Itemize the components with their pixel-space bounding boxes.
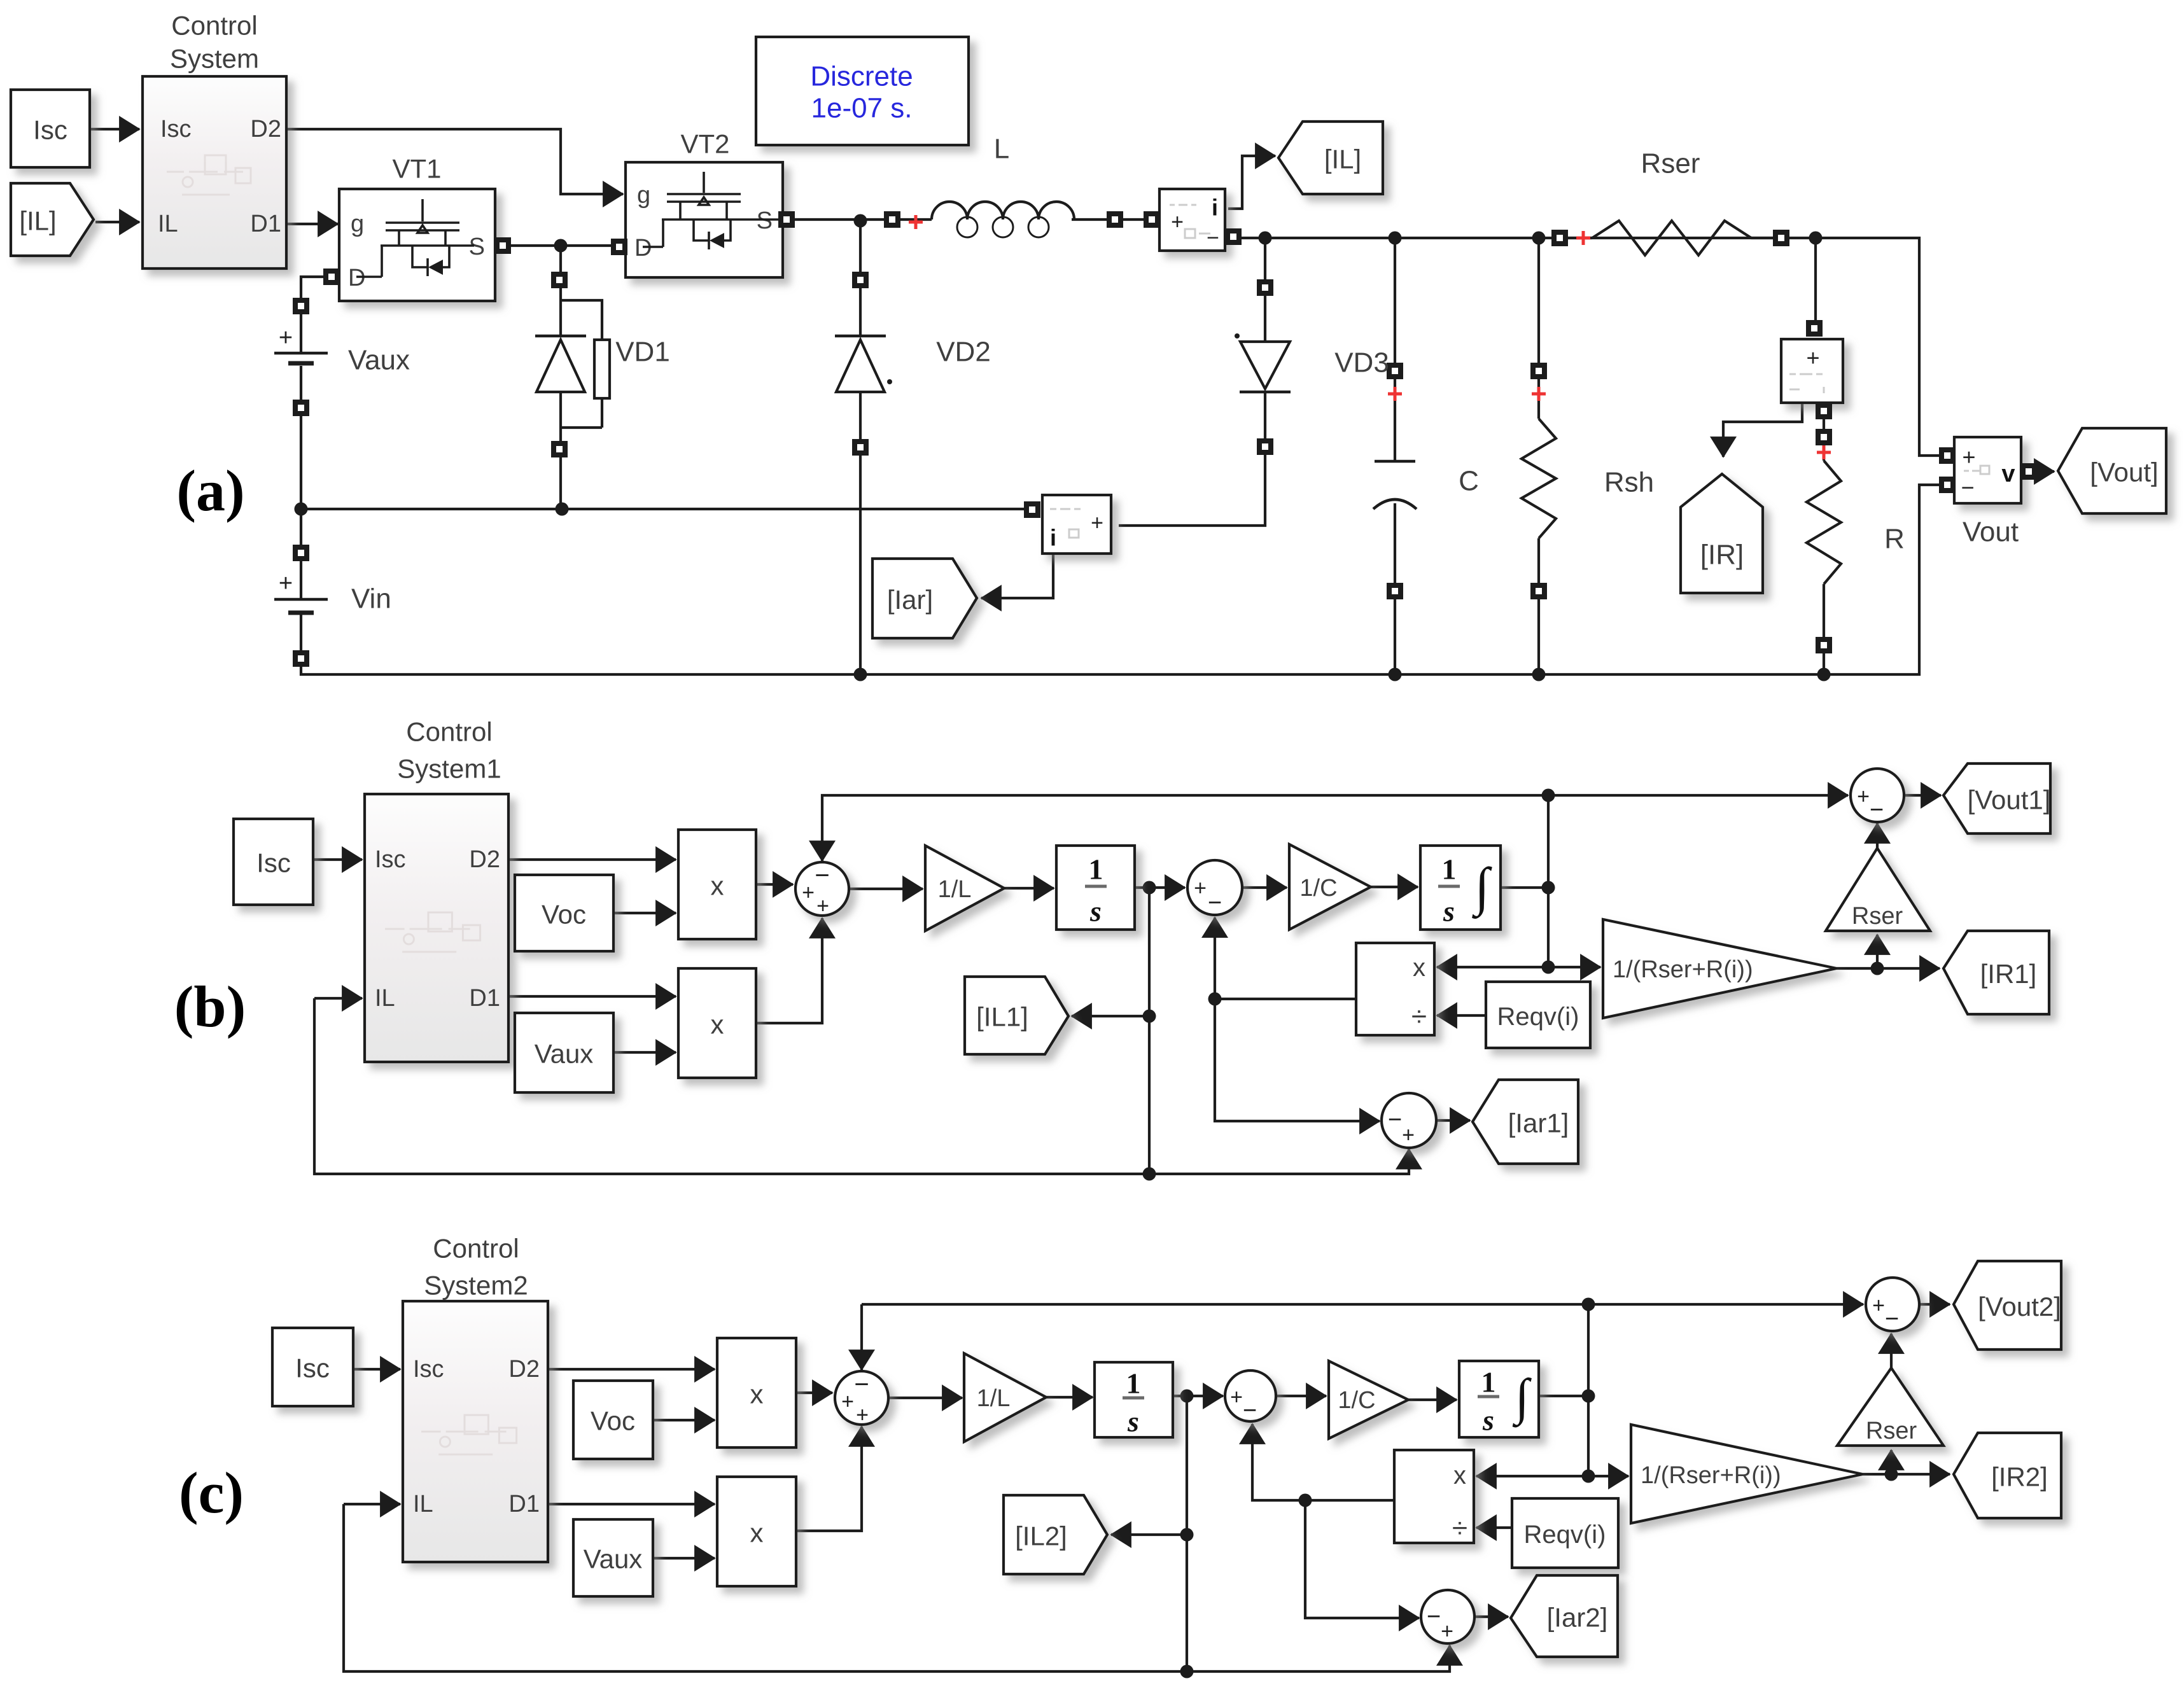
svg-text:÷: ÷ xyxy=(1452,1513,1467,1544)
svg-text:[Vout]: [Vout] xyxy=(2090,457,2158,487)
svg-text:+: + xyxy=(802,881,815,905)
svg-text:1/(Rser+R(i)): 1/(Rser+R(i)) xyxy=(1613,956,1753,983)
svg-text:Discrete: Discrete xyxy=(810,61,913,92)
svg-text:Rser: Rser xyxy=(1866,1418,1917,1444)
svg-text:−: − xyxy=(1388,1106,1402,1133)
svg-text:s: s xyxy=(1482,1404,1494,1437)
svg-text:Rser: Rser xyxy=(1641,148,1700,179)
svg-text:VD2: VD2 xyxy=(936,337,991,368)
svg-text:Voc: Voc xyxy=(542,900,586,930)
svg-text:x: x xyxy=(711,871,724,901)
svg-text:Vin: Vin xyxy=(351,583,391,615)
svg-text:+: + xyxy=(279,570,293,597)
svg-text:x: x xyxy=(1453,1461,1466,1489)
svg-text:(b): (b) xyxy=(174,974,246,1039)
svg-text:1: 1 xyxy=(1442,853,1457,886)
svg-text:D2: D2 xyxy=(250,116,281,143)
svg-text:Isc: Isc xyxy=(413,1356,444,1383)
svg-text:1: 1 xyxy=(1089,853,1103,886)
svg-text:1e-07 s.: 1e-07 s. xyxy=(811,93,913,124)
svg-text:x: x xyxy=(750,1518,764,1548)
svg-text:Isc: Isc xyxy=(33,115,67,145)
svg-text:IL: IL xyxy=(413,1491,433,1517)
svg-text:s: s xyxy=(1443,895,1455,928)
svg-text:D2: D2 xyxy=(469,846,500,873)
svg-text:+: + xyxy=(1230,1385,1243,1409)
svg-text:VD1: VD1 xyxy=(615,337,670,368)
svg-text:i: i xyxy=(1212,195,1218,221)
svg-text:D: D xyxy=(348,265,365,291)
svg-text:÷: ÷ xyxy=(1411,1001,1427,1033)
svg-text:(c): (c) xyxy=(179,1460,244,1525)
svg-text:Isc: Isc xyxy=(256,848,291,878)
svg-text:+: + xyxy=(1441,1619,1453,1643)
svg-text:1: 1 xyxy=(1481,1366,1496,1399)
svg-text:+: + xyxy=(1806,345,1819,371)
svg-text:System2: System2 xyxy=(424,1271,528,1301)
svg-text:+: + xyxy=(1194,876,1207,900)
svg-text:v: v xyxy=(2001,461,2015,487)
svg-text:1/(Rser+R(i)): 1/(Rser+R(i)) xyxy=(1641,1462,1781,1489)
svg-text:−: − xyxy=(1961,475,1974,501)
svg-text:VT2: VT2 xyxy=(680,129,729,159)
svg-text:D: D xyxy=(634,235,652,262)
svg-text:1/C: 1/C xyxy=(1338,1387,1375,1414)
svg-text:x: x xyxy=(711,1010,724,1040)
svg-text:Isc: Isc xyxy=(295,1353,330,1383)
svg-text:R: R xyxy=(1884,524,1905,555)
svg-text:Control: Control xyxy=(433,1234,519,1264)
svg-text:D1: D1 xyxy=(469,985,500,1012)
svg-text:1/L: 1/L xyxy=(977,1385,1011,1412)
svg-text:s: s xyxy=(1089,895,1102,928)
svg-text:+: + xyxy=(1872,1294,1885,1318)
svg-text:[IR]: [IR] xyxy=(1700,540,1744,571)
svg-text:Reqv(i): Reqv(i) xyxy=(1524,1521,1606,1549)
svg-text:VD3: VD3 xyxy=(1334,347,1389,379)
svg-text:x: x xyxy=(1413,954,1425,982)
svg-text:[IL1]: [IL1] xyxy=(976,1002,1028,1032)
svg-text:+: + xyxy=(856,1403,869,1427)
svg-text:IL: IL xyxy=(375,985,395,1012)
svg-text:[IL2]: [IL2] xyxy=(1015,1521,1067,1551)
svg-text:System: System xyxy=(170,44,259,74)
svg-text:Isc: Isc xyxy=(375,846,406,873)
svg-text:−: − xyxy=(815,861,829,889)
svg-text:C: C xyxy=(1459,466,1479,497)
svg-text:[Iar1]: [Iar1] xyxy=(1508,1108,1569,1138)
svg-text:[Vout1]: [Vout1] xyxy=(1968,785,2051,815)
svg-text:s: s xyxy=(1127,1406,1139,1438)
svg-text:g: g xyxy=(637,182,650,209)
svg-text:−: − xyxy=(1207,226,1219,250)
svg-text:−: − xyxy=(854,1371,869,1399)
svg-text:+: + xyxy=(1091,511,1103,535)
svg-text:VT1: VT1 xyxy=(392,154,441,184)
svg-text:i: i xyxy=(1050,525,1056,551)
svg-text:Control: Control xyxy=(171,11,257,41)
svg-text:Vaux: Vaux xyxy=(584,1544,643,1574)
svg-text:Isc: Isc xyxy=(160,116,192,143)
svg-text:[Iar2]: [Iar2] xyxy=(1547,1603,1608,1633)
svg-text:Vaux: Vaux xyxy=(535,1039,594,1069)
svg-text:Rser: Rser xyxy=(1852,903,1903,930)
svg-text:1: 1 xyxy=(1126,1367,1141,1400)
svg-text:D2: D2 xyxy=(508,1356,540,1383)
svg-text:Vaux: Vaux xyxy=(348,345,410,376)
svg-text:Rsh: Rsh xyxy=(1604,467,1654,498)
svg-text:S: S xyxy=(469,234,485,260)
svg-text:D1: D1 xyxy=(250,211,281,237)
svg-text:+: + xyxy=(1962,444,1975,470)
svg-text:+: + xyxy=(1857,785,1870,809)
svg-text:[Iar]: [Iar] xyxy=(887,585,933,615)
svg-text:[IL]: [IL] xyxy=(1324,144,1361,174)
svg-text:[IL]: [IL] xyxy=(19,206,56,236)
svg-text:Vout: Vout xyxy=(1963,517,2019,548)
svg-text:(a): (a) xyxy=(176,458,244,523)
svg-text:−: − xyxy=(1243,1397,1257,1424)
svg-text:IL: IL xyxy=(158,211,178,237)
svg-text:+: + xyxy=(1171,210,1184,234)
svg-text:g: g xyxy=(351,211,364,237)
svg-text:L: L xyxy=(994,134,1009,165)
svg-text:+: + xyxy=(279,324,293,351)
svg-text:+: + xyxy=(841,1390,854,1414)
svg-text:Control: Control xyxy=(406,717,492,747)
svg-text:Reqv(i): Reqv(i) xyxy=(1497,1003,1579,1031)
svg-text:1/L: 1/L xyxy=(938,876,972,903)
svg-text:[Vout2]: [Vout2] xyxy=(1978,1292,2061,1322)
svg-text:1/C: 1/C xyxy=(1299,875,1337,902)
svg-text:−: − xyxy=(1208,889,1222,916)
svg-text:S: S xyxy=(757,207,773,234)
svg-text:System1: System1 xyxy=(397,754,501,784)
svg-text:x: x xyxy=(750,1379,764,1409)
svg-text:D1: D1 xyxy=(508,1491,540,1517)
svg-text:Voc: Voc xyxy=(591,1406,635,1436)
svg-text:+: + xyxy=(816,894,829,918)
svg-text:[IR1]: [IR1] xyxy=(1980,959,2037,989)
svg-text:−: − xyxy=(1427,1603,1441,1630)
svg-text:−: − xyxy=(1870,797,1884,823)
svg-text:[IR2]: [IR2] xyxy=(1991,1462,2048,1492)
svg-text:−: − xyxy=(1885,1306,1899,1332)
svg-text:+: + xyxy=(1402,1123,1415,1147)
